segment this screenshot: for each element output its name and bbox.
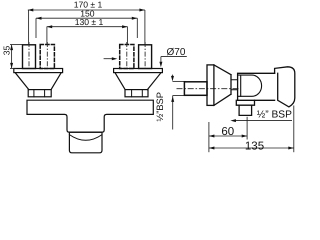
wall flange plate bbox=[207, 65, 214, 106]
O70 leader vertical bbox=[160, 57, 162, 64]
O70 underline leader bbox=[161, 56, 187, 58]
ext line 150 left bbox=[35, 18, 37, 38]
pipe top leader vertical with arrow bbox=[172, 75, 174, 78]
flange plate left bbox=[14, 69, 63, 73]
dimension lines / thin linework bbox=[10, 10, 294, 152]
ext line 130 right bbox=[126, 27, 128, 45]
dim 170 line bbox=[28, 9, 145, 11]
inlet thread left alternate (dashed rect) bbox=[40, 45, 54, 69]
dim 35 bottom tick bbox=[10, 67, 17, 69]
outlet step bbox=[236, 100, 254, 105]
dim 35 top tick bbox=[10, 44, 22, 46]
outlet cup bbox=[69, 132, 102, 153]
inlet thread left (solid rect) bbox=[23, 45, 36, 69]
capsule left edge bbox=[240, 75, 242, 96]
outlet spout bbox=[239, 105, 252, 115]
side pipe centerline bbox=[177, 88, 241, 90]
ext line 170 left bbox=[28, 10, 30, 45]
flange cone left bbox=[15, 73, 61, 90]
ext line 150 right bbox=[136, 18, 138, 38]
left ext for 60/135 bbox=[208, 122, 210, 152]
svg-text:35: 35 bbox=[2, 46, 12, 56]
outlet cup rim arc bbox=[69, 135, 102, 141]
dim 35 vertical line bbox=[11, 45, 13, 69]
arrows dim 130 bbox=[47, 25, 53, 28]
centerline left solid rect bbox=[28, 42, 30, 68]
arrow leader below pipe (points up at pipe bottom line) bbox=[171, 96, 174, 102]
ext line 170 right bbox=[144, 10, 146, 45]
flange cone bbox=[214, 65, 231, 106]
handle lever bbox=[275, 67, 295, 107]
body block bbox=[238, 73, 275, 100]
neck to body bbox=[231, 80, 238, 90]
arrows dim 135 bbox=[209, 147, 215, 150]
leader vertical below pipe bbox=[172, 96, 174, 130]
dim 60 right ext bbox=[246, 117, 248, 140]
arrow O70 leader bbox=[159, 62, 162, 68]
pipe bottom corner extension bbox=[173, 95, 185, 97]
svg-text:½”BSP: ½”BSP bbox=[155, 92, 165, 121]
flange plate right bbox=[114, 69, 163, 73]
BSP outlet leader bbox=[235, 120, 292, 122]
dim 60 line bbox=[209, 135, 247, 137]
arrowheads bbox=[10, 9, 294, 150]
leader arrow to dashed inlet bbox=[104, 58, 114, 60]
flange cone right bbox=[115, 73, 161, 90]
svg-text:½” BSP: ½” BSP bbox=[257, 110, 292, 121]
svg-text:135: 135 bbox=[245, 140, 264, 152]
inlet thread right alternate (dashed rect) bbox=[120, 45, 134, 69]
pipe top leader horizontal bbox=[173, 80, 186, 82]
svg-text:Ø70: Ø70 bbox=[167, 47, 186, 58]
centerline right solid rect bbox=[144, 42, 146, 68]
arrows dim 35 bbox=[10, 45, 13, 51]
arrow pipe top leader bbox=[171, 76, 174, 82]
dim 135 line bbox=[209, 147, 294, 149]
svg-text:130 ± 1: 130 ± 1 bbox=[75, 17, 104, 27]
threaded pipe bbox=[184, 82, 207, 96]
inlet thread right (solid rect) bbox=[139, 45, 152, 69]
ext line 130 left bbox=[46, 27, 48, 45]
nut left bbox=[28, 90, 51, 97]
nut facets right bbox=[132, 90, 143, 97]
nut facets left bbox=[34, 90, 45, 97]
centerline right dashed rect bbox=[126, 42, 128, 68]
right ext for 135 bbox=[293, 106, 295, 153]
dim 130 line bbox=[47, 26, 128, 28]
nut right bbox=[125, 90, 148, 97]
dim 150 line bbox=[36, 17, 137, 19]
arrow BSP outlet leader bbox=[230, 119, 236, 122]
arrows dim 60 bbox=[209, 135, 215, 138]
body bar bbox=[27, 100, 153, 132]
arrow leader dashed inlet bbox=[112, 57, 118, 60]
cartridge capsule bbox=[238, 75, 262, 96]
svg-text:60: 60 bbox=[221, 126, 234, 138]
centerline left dashed rect bbox=[46, 42, 48, 68]
arrows dim 170 bbox=[28, 9, 34, 12]
arrows dim 150 bbox=[36, 17, 42, 20]
